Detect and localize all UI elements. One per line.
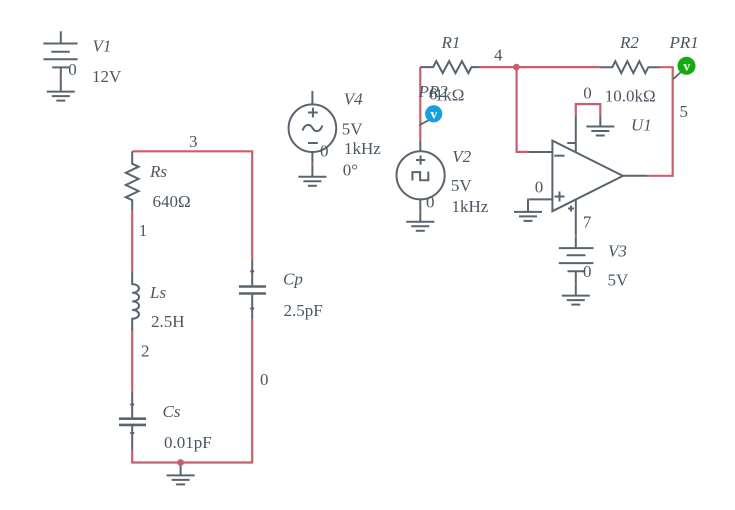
svg-text:0.01pF: 0.01pF [164, 433, 212, 452]
svg-text:5V: 5V [451, 176, 473, 195]
svg-text:V3: V3 [608, 241, 627, 260]
svg-text:640Ω: 640Ω [153, 192, 191, 211]
svg-text:0°: 0° [343, 160, 358, 179]
svg-text:R2: R2 [619, 33, 639, 52]
svg-text:2: 2 [141, 341, 150, 360]
svg-text:2.5H: 2.5H [151, 312, 185, 331]
svg-text:V4: V4 [344, 90, 363, 109]
svg-text:5: 5 [680, 102, 689, 121]
svg-text:U1: U1 [631, 116, 652, 135]
svg-text:0: 0 [535, 178, 544, 197]
svg-text:0: 0 [583, 83, 592, 102]
svg-text:Cs: Cs [163, 402, 181, 421]
svg-text:Cp: Cp [283, 269, 303, 288]
svg-text:v: v [683, 60, 690, 75]
svg-text:0: 0 [426, 193, 435, 212]
svg-text:5V: 5V [608, 270, 630, 289]
svg-text:R1: R1 [441, 33, 461, 52]
svg-text:1: 1 [139, 221, 148, 240]
svg-text:3: 3 [189, 132, 198, 151]
svg-text:4: 4 [494, 46, 503, 65]
svg-text:1kHz: 1kHz [452, 197, 489, 216]
svg-text:10.0kΩ: 10.0kΩ [605, 86, 656, 105]
svg-text:0: 0 [260, 370, 269, 389]
svg-text:1kHz: 1kHz [344, 139, 381, 158]
svg-text:PR1: PR1 [669, 33, 699, 52]
svg-text:v: v [430, 107, 437, 122]
svg-text:V2: V2 [452, 147, 471, 166]
svg-text:Ls: Ls [149, 283, 166, 302]
svg-text:12V: 12V [92, 67, 122, 86]
svg-text:0: 0 [583, 262, 592, 281]
svg-text:5V: 5V [342, 120, 364, 139]
svg-text:1kΩ: 1kΩ [435, 86, 465, 105]
svg-text:0: 0 [68, 60, 77, 79]
svg-text:0: 0 [320, 141, 329, 160]
svg-text:V1: V1 [93, 37, 112, 56]
svg-text:Rs: Rs [149, 162, 167, 181]
svg-text:2.5pF: 2.5pF [284, 301, 323, 320]
svg-text:7: 7 [583, 213, 592, 232]
